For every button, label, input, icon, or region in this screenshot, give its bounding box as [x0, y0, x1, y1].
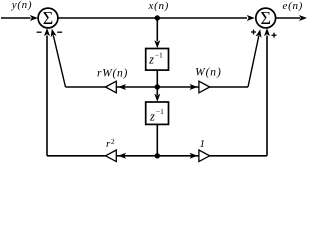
wire: Z1 to middle line — [156, 70, 158, 87]
arrowhead into gain 1 — [190, 153, 198, 159]
arrowhead into delay Z2 — [154, 94, 160, 102]
svg-text:−1: −1 — [155, 51, 163, 60]
svg-text:rW(n): rW(n) — [97, 67, 128, 79]
svg-text:x(n): x(n) — [148, 0, 170, 12]
wire: middle node down to second delay — [156, 87, 158, 95]
arrowhead right vertical into U2 — [264, 28, 270, 36]
gain amplifier W(n) triangle — [199, 81, 210, 93]
arrowhead left slant into U1 — [51, 29, 57, 37]
svg-text:Σ: Σ — [43, 8, 53, 28]
svg-text:Σ: Σ — [260, 8, 270, 28]
node middle junction dot — [155, 84, 160, 89]
wire: left feedback vertical — [46, 36, 48, 156]
gain amplifier r^2 triangle — [106, 150, 117, 162]
svg-text:1: 1 — [199, 138, 205, 150]
gain amplifier rW(n) triangle — [106, 81, 117, 93]
arrowhead into gain rW(n) — [118, 84, 126, 90]
svg-text:−1: −1 — [156, 107, 164, 116]
minus sign right of U1 input — [57, 31, 62, 33]
wire: bottom horizontal line — [47, 155, 267, 157]
svg-text:y(n): y(n) — [11, 0, 33, 11]
gain amplifier 1 triangle — [199, 150, 210, 162]
arrowhead into summer U1 — [30, 15, 38, 21]
wire: top line from U1 to U2 — [58, 17, 248, 19]
svg-text:e(n): e(n) — [283, 0, 304, 12]
arrowhead left vertical into U1 — [44, 28, 50, 36]
svg-text:2: 2 — [111, 137, 115, 146]
arrowhead into gain r^2 — [118, 153, 126, 159]
plus sign right of U2 input — [272, 33, 277, 38]
arrowhead output e(n) — [299, 15, 307, 21]
minus sign left of U1 input — [37, 31, 42, 33]
arrowhead into summer U2 — [247, 15, 255, 21]
svg-text:z: z — [148, 53, 154, 67]
svg-text:z: z — [149, 109, 155, 123]
wire: x(n) down to first delay — [156, 18, 158, 41]
wire: right feedback vertical — [266, 36, 268, 156]
wire: middle horizontal line — [66, 86, 249, 88]
svg-text:W(n): W(n) — [195, 67, 222, 79]
summer U2 (right sigma circle) — [256, 8, 276, 28]
wire: Z2 down to bottom line — [156, 124, 158, 155]
wire: left slant from rW(n) path to U1 — [53, 35, 65, 87]
wire: input y(n) line — [1, 17, 31, 19]
arrowhead right slant into U2 — [256, 29, 262, 37]
arrowhead into delay Z1 — [154, 40, 160, 48]
wire: right slant from W(n) path to U2 — [248, 36, 259, 87]
delay block Z2 (z^-1) — [146, 102, 169, 124]
node bottom junction dot — [155, 153, 160, 158]
summer U1 (left sigma circle) — [38, 8, 58, 28]
delay block Z1 (z^-1) — [146, 49, 169, 71]
node x(n) junction dot — [155, 15, 160, 20]
plus sign left of U2 input — [251, 30, 256, 35]
wire: output e(n) line — [275, 17, 300, 19]
arrowhead into gain W(n) — [190, 84, 198, 90]
